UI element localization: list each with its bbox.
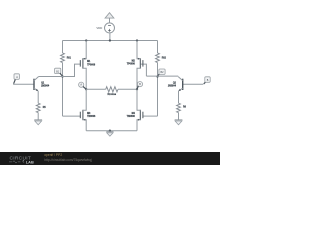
junction dot out right	[136, 88, 138, 90]
wire tail rail	[86, 130, 137, 132]
transistor M4 gate bar	[142, 112, 144, 119]
logo bolt	[22, 160, 24, 163]
flag node OUTR circle	[137, 82, 142, 87]
ground G1	[34, 119, 42, 121]
voltage source V1 circle	[105, 23, 115, 33]
wire Q1 base	[13, 83, 34, 85]
wire out left	[86, 88, 106, 90]
junction dot node Vb2	[156, 75, 158, 77]
wire Q2 base	[183, 83, 204, 85]
wire M1 source lead	[83, 68, 86, 89]
wire Q2 emitter to R6	[178, 91, 180, 103]
wire R01 to node	[62, 63, 64, 117]
wire rail to R02	[157, 41, 159, 54]
transistor M1 channel bar	[82, 58, 84, 68]
M3 source arrow	[83, 119, 85, 121]
wire R02 to node	[157, 63, 159, 117]
ground G2	[175, 119, 183, 121]
transistor M3 gate bar	[79, 112, 81, 119]
Q2 emitter arrow	[179, 89, 181, 91]
flag input IN1 box	[14, 74, 19, 80]
resistor R02	[156, 53, 160, 63]
wire Q2 collector diag	[178, 77, 183, 81]
wire M4 gate	[143, 115, 158, 117]
M1 source arrow	[83, 58, 85, 60]
junction dot tail	[109, 130, 111, 132]
transistor M2 channel bar	[139, 58, 141, 68]
wire arrow stem	[109, 18, 111, 23]
junction dot rail/M2	[136, 39, 138, 41]
wire out right	[118, 88, 137, 90]
svg-text:openif / PP2: openif / PP2	[44, 153, 62, 157]
resistor R01	[61, 53, 65, 63]
transistor M2 gate bar	[142, 60, 144, 67]
transistor M3 channel bar	[82, 110, 84, 120]
wire Q2 collector / M2 gate	[141, 64, 179, 76]
wire M2 drain lead	[137, 41, 140, 59]
transistor M4 channel bar	[139, 110, 141, 120]
wire rail to R01	[62, 41, 64, 54]
junction dot rail/M1	[85, 39, 87, 41]
M2 source arrow	[138, 58, 140, 60]
wire R6 to ground	[178, 113, 180, 120]
wire Q2 emitter diag	[179, 88, 183, 91]
wire M1 drain lead	[83, 41, 86, 59]
Q1 emitter arrow	[36, 89, 38, 91]
ground G3	[106, 131, 113, 133]
transistor Q1 bar	[33, 79, 35, 90]
flag input IN2 box	[205, 77, 210, 83]
resistor R5	[36, 103, 40, 112]
wire M3 source lead	[83, 120, 86, 131]
wire M3 gate	[63, 115, 81, 117]
junction dot node Vb1	[61, 75, 63, 77]
M4 source arrow	[138, 119, 140, 121]
node VDD rail	[63, 40, 158, 42]
wire M2 source lead	[137, 68, 140, 89]
flag node B1 box	[55, 68, 61, 73]
wire M4 source lead	[137, 120, 140, 131]
logo squiggle	[9, 161, 20, 163]
wire R5 to ground	[37, 113, 39, 120]
wire Q1 collector diag	[34, 77, 39, 81]
wire Q1 emitter diag	[34, 88, 38, 91]
resistor R6	[177, 103, 181, 112]
transistor M1 gate bar	[79, 60, 81, 67]
svg-text:LAB: LAB	[26, 160, 34, 165]
svg-text:http://circuitlab.com/75qwsrfw: http://circuitlab.com/75qwsrfwbqj	[44, 158, 92, 162]
junction dot rail/source	[109, 39, 111, 41]
wire Q1 collector / M1 gate	[39, 64, 81, 76]
watermark bar	[0, 152, 220, 165]
flag node B2 box	[159, 69, 165, 74]
wire tail to ground	[109, 131, 111, 132]
flag node OUTL circle	[79, 82, 84, 87]
junction dot out left	[85, 88, 87, 90]
transistor Q2 bar	[182, 79, 184, 90]
wire Q1 emitter to R5	[37, 91, 39, 103]
wire M3 drain lead	[83, 89, 86, 110]
wire M4 drain lead	[137, 89, 140, 110]
resistor Rmid	[106, 87, 118, 92]
wire source to rail	[109, 33, 111, 41]
power supply arrow (VDD rail symbol)	[105, 13, 114, 18]
